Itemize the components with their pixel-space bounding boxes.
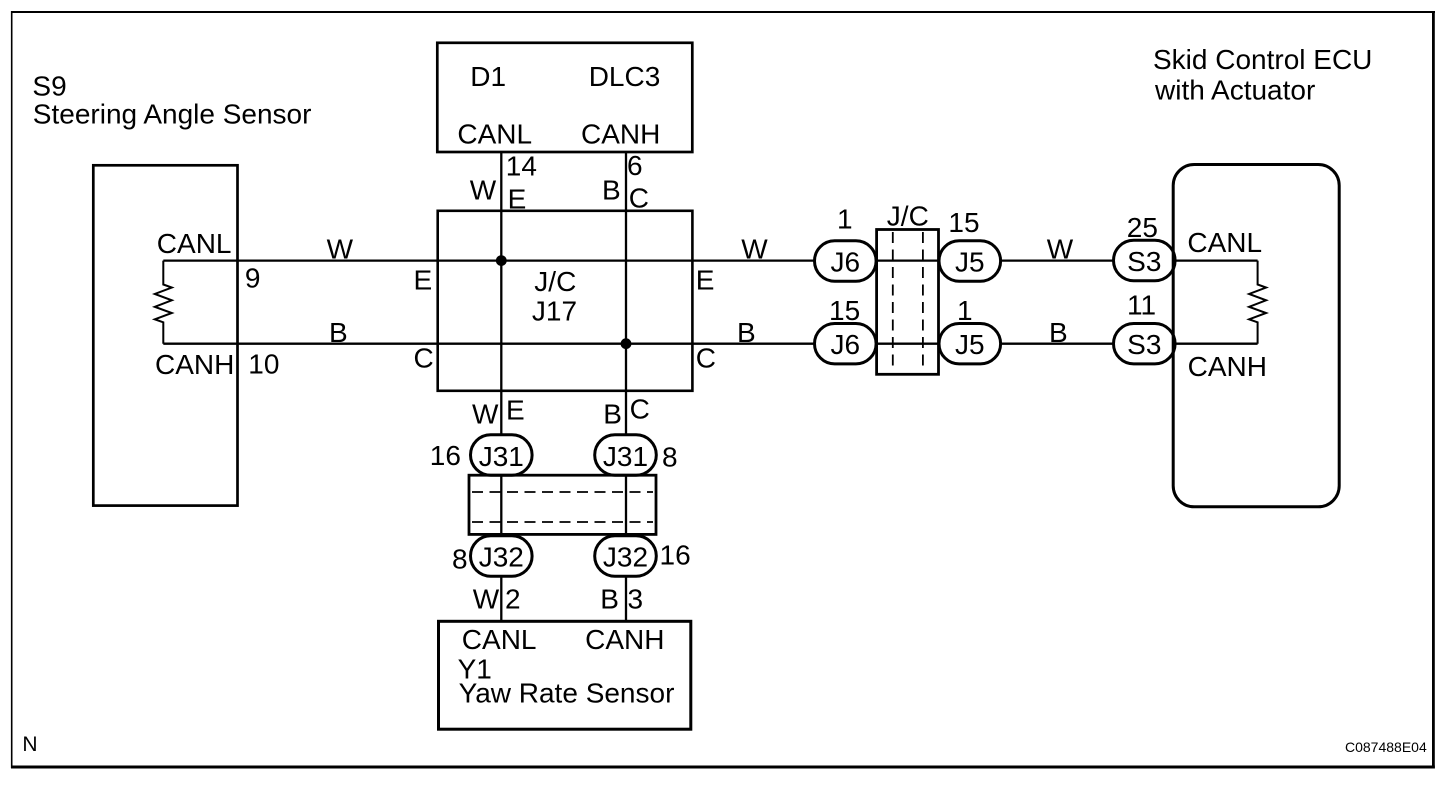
svg-text:15: 15 (829, 295, 860, 326)
svg-text:CANH: CANH (1188, 351, 1267, 382)
svg-text:10: 10 (248, 348, 279, 379)
svg-text:C087488E04: C087488E04 (1345, 739, 1427, 755)
svg-text:CANL: CANL (457, 119, 532, 150)
svg-text:25: 25 (1127, 212, 1158, 243)
svg-text:W: W (472, 399, 499, 430)
svg-text:S3: S3 (1127, 329, 1161, 360)
svg-text:CANH: CANH (585, 624, 664, 655)
svg-text:J31: J31 (479, 441, 524, 472)
svg-text:CANH: CANH (581, 119, 660, 150)
svg-text:W: W (1047, 233, 1074, 264)
svg-text:9: 9 (245, 263, 261, 294)
svg-text:W: W (470, 175, 497, 206)
svg-text:B: B (329, 317, 348, 348)
svg-text:S3: S3 (1127, 246, 1161, 277)
svg-text:8: 8 (452, 544, 468, 575)
svg-text:B: B (1049, 317, 1068, 348)
svg-text:W: W (327, 233, 354, 264)
svg-text:Yaw Rate Sensor: Yaw Rate Sensor (459, 677, 675, 708)
svg-text:J5: J5 (955, 329, 985, 360)
svg-text:J/C: J/C (887, 201, 929, 232)
svg-text:Steering Angle Sensor: Steering Angle Sensor (33, 99, 312, 130)
svg-text:J32: J32 (603, 542, 648, 573)
svg-text:J32: J32 (479, 542, 524, 573)
svg-text:16: 16 (660, 540, 691, 571)
svg-text:D1: D1 (470, 61, 506, 92)
svg-text:E: E (414, 265, 433, 296)
svg-text:15: 15 (948, 207, 979, 238)
svg-text:E: E (696, 265, 715, 296)
svg-text:14: 14 (506, 151, 537, 182)
svg-text:1: 1 (837, 204, 853, 235)
svg-text:S9: S9 (32, 71, 66, 102)
svg-text:2: 2 (505, 584, 521, 615)
svg-text:CANL: CANL (462, 624, 537, 655)
svg-text:N: N (22, 733, 37, 756)
svg-text:6: 6 (627, 150, 643, 181)
svg-text:C: C (696, 342, 716, 373)
svg-text:11: 11 (1127, 289, 1156, 320)
svg-text:3: 3 (628, 584, 644, 615)
svg-text:J6: J6 (831, 329, 861, 360)
svg-text:1: 1 (957, 295, 973, 326)
svg-text:B: B (600, 584, 619, 615)
svg-text:J31: J31 (603, 441, 648, 472)
svg-text:CANL: CANL (1187, 227, 1262, 258)
svg-text:W: W (741, 233, 768, 264)
svg-text:W: W (473, 584, 500, 615)
svg-text:CANL: CANL (157, 228, 232, 259)
svg-text:E: E (508, 184, 527, 215)
svg-text:J5: J5 (955, 247, 985, 278)
svg-text:DLC3: DLC3 (589, 61, 661, 92)
svg-text:16: 16 (430, 440, 461, 471)
svg-text:CANH: CANH (155, 349, 234, 380)
svg-text:C: C (414, 342, 434, 373)
svg-text:with Actuator: with Actuator (1154, 75, 1315, 106)
svg-text:J6: J6 (831, 247, 861, 278)
svg-text:Skid Control ECU: Skid Control ECU (1153, 44, 1372, 75)
svg-text:B: B (737, 317, 756, 348)
svg-text:J17: J17 (532, 296, 577, 327)
svg-text:B: B (603, 398, 622, 429)
svg-text:B: B (602, 175, 621, 206)
svg-text:E: E (506, 394, 525, 425)
svg-text:8: 8 (662, 442, 678, 473)
svg-text:C: C (630, 394, 650, 425)
svg-text:C: C (629, 183, 649, 214)
svg-text:J/C: J/C (534, 266, 576, 297)
